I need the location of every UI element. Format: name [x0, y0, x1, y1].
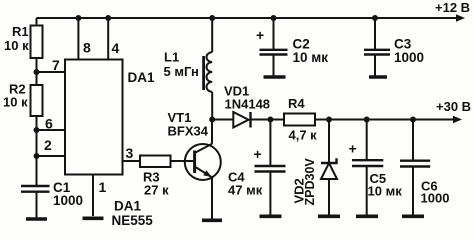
- svg-text:8: 8: [83, 40, 91, 56]
- svg-text:1000: 1000: [53, 193, 83, 208]
- resistor R2: [31, 72, 43, 116]
- svg-text:+: +: [349, 141, 357, 157]
- node junction C5 rail: [364, 117, 370, 123]
- op-amp U1 IC DA1 NE555 box: [65, 60, 123, 175]
- wire collector up: [211, 120, 213, 144]
- svg-text:R4: R4: [288, 96, 305, 111]
- svg-text:1000: 1000: [394, 50, 424, 65]
- wire left vertical R2 to C1: [36, 116, 38, 186]
- svg-text:5 мГн: 5 мГн: [164, 64, 199, 79]
- inductor L1: [204, 18, 213, 120]
- svg-text:BFX34: BFX34: [168, 124, 209, 139]
- svg-text:NE555: NE555: [112, 213, 154, 228]
- svg-text:47 мк: 47 мк: [228, 183, 263, 198]
- svg-text:6: 6: [45, 116, 53, 132]
- ground C6: [402, 215, 424, 219]
- ground VD2: [318, 215, 340, 219]
- wire +30V rail: [315, 119, 453, 121]
- node junction pin6: [34, 127, 40, 133]
- capacitor C5: [352, 120, 383, 215]
- svg-text:10 к: 10 к: [3, 95, 28, 110]
- wire VD1 to R4: [251, 119, 285, 121]
- diode VD1: [233, 112, 250, 128]
- svg-text:DA1: DA1: [114, 199, 141, 214]
- ground pin1: [83, 217, 104, 221]
- svg-text:1N4148: 1N4148: [225, 97, 271, 112]
- wire pin4: [107, 18, 109, 60]
- wire +12V top rail: [37, 17, 457, 19]
- svg-text:10 мк: 10 мк: [293, 50, 329, 65]
- capacitor C3: [364, 18, 390, 76]
- node junction pin8 rail: [75, 15, 81, 21]
- node junction collector-L1-VD1: [209, 117, 215, 123]
- node junction C2 rail: [271, 15, 277, 21]
- svg-text:L1: L1: [164, 50, 179, 65]
- node junction C4 tap: [267, 117, 273, 123]
- node +30V arrow: [453, 116, 462, 124]
- capacitor C4: [255, 120, 286, 215]
- ground C1: [26, 217, 47, 221]
- ground VT1 emitter: [202, 219, 222, 223]
- node junction R1-R2-pin7: [34, 69, 40, 75]
- node junction pin2: [34, 153, 40, 159]
- wire to VD1: [212, 119, 233, 121]
- transistor Q1 VT1: [185, 144, 221, 180]
- svg-text:+12 В: +12 В: [435, 0, 470, 15]
- svg-text:27 к: 27 к: [144, 183, 169, 198]
- wire R3 to base: [171, 160, 195, 162]
- wire VD2 drop: [328, 120, 330, 164]
- svg-text:10 мк: 10 мк: [368, 184, 403, 199]
- wire pin8: [77, 18, 79, 60]
- svg-text:R1: R1: [12, 24, 29, 39]
- ground C4: [260, 215, 282, 219]
- wire pin3: [123, 160, 141, 162]
- wire pin1: [92, 175, 94, 217]
- capacitor C1: [21, 186, 50, 218]
- node junction C6 rail: [410, 117, 416, 123]
- svg-text:3: 3: [126, 145, 134, 161]
- svg-text:+30 В: +30 В: [436, 99, 471, 114]
- node junction pin4 rail: [105, 15, 111, 21]
- wire pin7: [37, 71, 66, 73]
- ground C3: [369, 75, 387, 79]
- wire emitter down: [211, 177, 213, 218]
- wire pin6: [37, 129, 66, 131]
- capacitor C6: [400, 120, 430, 215]
- resistor R4: [284, 114, 315, 126]
- ground C5: [356, 215, 378, 219]
- svg-text:DA1: DA1: [128, 70, 155, 85]
- resistor R3: [140, 156, 171, 168]
- svg-text:+: +: [254, 146, 262, 162]
- svg-text:4: 4: [112, 40, 120, 56]
- node junction VD2 rail: [326, 117, 332, 123]
- svg-text:1000: 1000: [421, 191, 450, 206]
- capacitor C2: [260, 18, 288, 76]
- svg-text:7: 7: [52, 57, 60, 73]
- node junction L1 rail: [209, 15, 215, 21]
- ground C2: [264, 75, 286, 79]
- svg-text:1: 1: [99, 179, 107, 195]
- svg-text:2: 2: [44, 137, 52, 153]
- node +12V arrow: [456, 14, 465, 22]
- svg-text:4,7 к: 4,7 к: [289, 128, 318, 143]
- svg-text:ZPD30V: ZPD30V: [303, 158, 317, 206]
- node junction C3 rail: [372, 15, 378, 21]
- svg-text:10 к: 10 к: [4, 38, 29, 53]
- diode VD2 zener: [321, 158, 337, 214]
- svg-text:+: +: [256, 27, 264, 43]
- wire pin2: [37, 155, 66, 157]
- resistor R1: [31, 18, 43, 72]
